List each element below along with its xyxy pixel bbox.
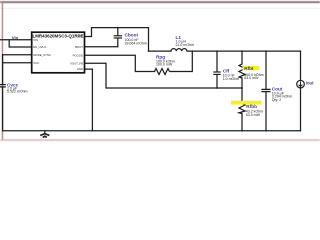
wire VCC-to-Cvcc vertical <box>2 55 4 85</box>
svg-text:BOOT: BOOT <box>75 45 83 49</box>
svg-text:PGOOD: PGOOD <box>73 53 83 57</box>
svg-text:EN_UVLO: EN_UVLO <box>33 45 47 49</box>
vout rail left of L1 <box>149 50 172 52</box>
resistor Rfbt <box>239 64 245 78</box>
svg-text:GND: GND <box>77 67 83 71</box>
svg-text:100.0 mW: 100.0 mW <box>156 63 173 67</box>
svg-text:39.064 mOhm: 39.064 mOhm <box>125 41 148 45</box>
vout rail right of L1 <box>187 50 301 52</box>
svg-text:5.522 mOhm: 5.522 mOhm <box>7 90 28 94</box>
wire Cout top <box>265 51 267 89</box>
wire Cff top <box>216 51 218 72</box>
svg-text:1.0 mOhm: 1.0 mOhm <box>223 77 240 81</box>
highlight Rfbb <box>231 101 262 105</box>
svg-text:63.0 mW: 63.0 mW <box>244 76 259 80</box>
frame left border <box>2 2 4 140</box>
svg-text:LMR43620MSC3-Q1RPE: LMR43620MSC3-Q1RPE <box>33 33 84 38</box>
wire Iout bottom <box>300 88 302 131</box>
IC U1 LMR43620MSC3-Q1RPE <box>32 32 85 73</box>
resistor Rfbb <box>239 101 245 114</box>
ground <box>40 131 49 138</box>
svg-text:VOUT_FB: VOUT_FB <box>70 61 83 65</box>
wire VCC <box>3 62 32 64</box>
wire Cboot top riser <box>117 28 119 36</box>
svg-text:Vin: Vin <box>12 35 19 40</box>
current source Iout <box>297 80 305 88</box>
svg-text:Iout: Iout <box>306 81 314 86</box>
frame faint inner top line <box>0 7 320 10</box>
highlight Rfbt <box>243 66 260 70</box>
wire Cff bottom <box>216 75 218 88</box>
wire Rfbt bottom <box>241 78 243 88</box>
svg-text:Rfbb: Rfbb <box>246 104 257 109</box>
capacitor Cout <box>261 89 270 91</box>
wire Rfbb bottom <box>241 114 243 131</box>
wire VIN <box>0 39 32 41</box>
frame bottom pink line <box>0 139 320 141</box>
svg-text:VIN: VIN <box>33 38 38 42</box>
wire Rpg right riser <box>170 51 192 71</box>
wire MODE_SYNC <box>3 54 32 56</box>
ground rail <box>3 130 301 132</box>
svg-text:SW: SW <box>78 35 83 39</box>
wire BOOT <box>85 46 118 48</box>
wire Rfbb top <box>241 88 243 100</box>
svg-text:Qty: 2: Qty: 2 <box>272 98 281 102</box>
capacitor Cvcc <box>0 85 6 87</box>
resistor Rpg <box>155 69 170 75</box>
svg-text:Rfbt: Rfbt <box>244 66 254 71</box>
svg-text:Cboot: Cboot <box>125 33 139 38</box>
svg-text:VCC: VCC <box>33 61 39 65</box>
wire Iout top <box>300 51 302 80</box>
inductor L1 <box>171 49 187 52</box>
wire GND pin drop <box>85 69 93 131</box>
wire VOUT_FB <box>85 63 243 88</box>
wire SW to top <box>85 28 149 51</box>
svg-text:21.0 mOhm: 21.0 mOhm <box>176 43 195 47</box>
wire EN_UVLO <box>9 40 32 47</box>
wire PGOOD <box>85 55 155 71</box>
wire Rfbt top <box>241 51 243 64</box>
svg-text:MODE_SYNC: MODE_SYNC <box>33 53 51 57</box>
wire Cboot bottom riser <box>117 39 119 47</box>
svg-text:63.0 mW: 63.0 mW <box>246 113 261 117</box>
capacitor Cboot <box>114 36 122 38</box>
wire Cvcc-to-ground vertical <box>2 87 4 131</box>
wire Cout bottom <box>265 92 267 131</box>
capacitor Cff <box>213 72 220 74</box>
